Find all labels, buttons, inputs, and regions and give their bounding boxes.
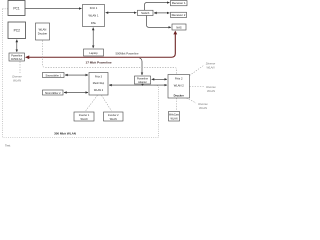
box WebCam — [169, 112, 180, 122]
svg-text:WLAN: WLAN — [206, 65, 215, 69]
svg-text:17 Mbit Powerline: 17 Mbit Powerline — [86, 60, 112, 64]
svg-text:AV500 Ad.: AV500 Ad. — [11, 58, 23, 61]
dashed to left Diverse WLAN — [19, 62, 21, 74]
wire red powerline main — [25, 31, 177, 60]
svg-text:Mesh Rep: Mesh Rep — [93, 82, 105, 85]
wire Switch to Receiver2 — [154, 12, 170, 14]
node Diverse WLAN left — [12, 75, 22, 83]
wire Stromzaehler2 to Mesh — [64, 92, 88, 94]
svg-text:Adapter: Adapter — [138, 81, 147, 84]
dashed Fritz2 to Diverse WLAN 1 — [190, 66, 204, 76]
dashed Fritz2 to WebCam — [176, 98, 178, 111]
node Diverse WLAN 1 — [206, 62, 216, 70]
box PC1 — [8, 1, 25, 16]
svg-text:Inverter 1: Inverter 1 — [79, 114, 90, 117]
node Diverse WLAN 3 — [198, 102, 208, 110]
svg-text:Drucker: Drucker — [38, 32, 48, 36]
svg-text:Stromzähler 1: Stromzähler 1 — [45, 75, 61, 78]
svg-text:300 Mbit WLAN: 300 Mbit WLAN — [54, 132, 76, 136]
wire PC1 to Fritz1 — [25, 8, 82, 10]
dashed WLAN Drucker to Fritz2 — [43, 41, 177, 75]
wire PC2 to Powerline adapter AV — [16, 40, 18, 53]
svg-text:Stromzähler 2: Stromzähler 2 — [45, 92, 61, 95]
box Receiver1 — [171, 1, 188, 6]
dashed Mesh to Inverter1 — [86, 95, 98, 111]
svg-text:Laptop: Laptop — [89, 51, 98, 55]
svg-text:PC2: PC2 — [14, 29, 20, 33]
wire branch down to Powerline Adapter 2 — [140, 58, 143, 75]
svg-text:Drucker: Drucker — [174, 93, 184, 97]
wire Fritz1 to Switch — [106, 12, 137, 14]
svg-text:Powerline: Powerline — [137, 77, 149, 80]
svg-text:WLAN: WLAN — [13, 78, 22, 82]
svg-text:Powerline: Powerline — [11, 54, 23, 57]
svg-text:WLAN: WLAN — [110, 118, 117, 121]
box Inverter1 — [74, 112, 94, 121]
svg-text:WebCam: WebCam — [169, 114, 179, 117]
box Fritz2 router — [168, 75, 190, 99]
dashed Fritz2 to Diverse WLAN 3 — [187, 98, 197, 103]
dashed Fritz2 to Diverse WLAN 2 — [190, 86, 205, 88]
svg-text:NAS: NAS — [176, 26, 182, 30]
box PC2 — [8, 22, 26, 39]
svg-text:Fritz 3: Fritz 3 — [95, 75, 103, 78]
svg-text:Switch: Switch — [141, 11, 150, 15]
box Mesh repeater Fritz3 — [89, 73, 108, 96]
svg-text:WLAN: WLAN — [199, 106, 208, 110]
svg-text:PC1: PC1 — [13, 6, 19, 10]
boundary dotted rectangle building — [3, 9, 159, 138]
box NAS — [172, 24, 186, 30]
box Powerline Adapter 2 — [135, 76, 151, 84]
box Laptop — [84, 49, 104, 56]
box Stromzaehler1 — [43, 73, 65, 78]
junction arrowhead under adapter — [141, 83, 145, 86]
svg-text:WLAN: WLAN — [171, 118, 178, 121]
svg-text:Test: Test — [5, 144, 10, 148]
box Fritz1 router — [83, 5, 105, 27]
svg-text:WLAN 2: WLAN 2 — [94, 89, 104, 92]
svg-text:WLAN: WLAN — [207, 89, 216, 93]
wire Switch to Receiver1 — [145, 3, 170, 11]
node Diverse WLAN 2 — [206, 85, 216, 93]
box Powerline AV adapter left — [9, 53, 25, 61]
box Stromzaehler2 — [43, 90, 64, 95]
box Receiver2 — [171, 12, 187, 17]
wire Fritz1 to Laptop — [92, 28, 94, 49]
svg-text:Inverter 2: Inverter 2 — [108, 114, 119, 117]
svg-text:DSL: DSL — [91, 21, 97, 25]
svg-text:Fritz 2: Fritz 2 — [175, 76, 183, 80]
box WLAN Drucker — [36, 23, 50, 40]
dashed Mesh to Inverter2 — [102, 95, 112, 111]
box Inverter2 — [104, 112, 124, 121]
svg-text:WLAN 2: WLAN 2 — [174, 83, 185, 87]
svg-text:Receiver 1: Receiver 1 — [172, 1, 186, 5]
wire PL Adapter to Fritz2 — [152, 78, 168, 80]
svg-text:WLAN 1: WLAN 1 — [88, 13, 99, 17]
box Switch — [138, 10, 154, 15]
wire Stromzaehler1 to Mesh — [65, 74, 88, 76]
svg-text:500Mbit Powerline: 500Mbit Powerline — [115, 52, 138, 56]
svg-text:Fritz 1: Fritz 1 — [90, 6, 98, 10]
wire Switch to NAS — [147, 16, 172, 28]
svg-text:WLAN: WLAN — [39, 28, 47, 32]
wire Mesh to Fritz2 long — [109, 84, 167, 86]
svg-text:WLAN: WLAN — [81, 118, 88, 121]
svg-text:Receiver 2: Receiver 2 — [172, 13, 186, 17]
